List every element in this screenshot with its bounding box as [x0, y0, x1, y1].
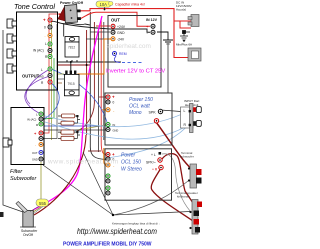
svg-text:IN (AC): IN (AC) — [27, 118, 36, 122]
svg-text:GND: GND — [38, 75, 44, 79]
svg-text:+ R: + R — [152, 168, 158, 172]
svg-text:7915: 7915 — [68, 82, 75, 86]
svg-text:L: L — [184, 109, 186, 113]
svg-text:Power: Power — [121, 153, 136, 159]
svg-text:GND: GND — [32, 158, 38, 162]
svg-text:OUT: OUT — [111, 18, 120, 23]
svg-text:-: - — [45, 34, 46, 38]
svg-text:SPK: SPK — [149, 111, 157, 115]
svg-text:spiderheat.com: spiderheat.com — [107, 43, 151, 50]
svg-text:555: 555 — [39, 201, 47, 206]
svg-text:-: - — [35, 143, 36, 147]
svg-text:On/Off: On/Off — [23, 233, 33, 237]
svg-text:+: + — [112, 95, 115, 100]
svg-text:IN 12V: IN 12V — [146, 18, 158, 22]
svg-text:-24V: -24V — [117, 38, 125, 42]
svg-text:+24V: +24V — [117, 25, 126, 29]
svg-text:Accu(s): Accu(s) — [176, 8, 186, 12]
svg-text:W Stereo: W Stereo — [121, 167, 142, 173]
svg-text:Tone Control: Tone Control — [14, 4, 55, 11]
svg-text:REM: REM — [119, 52, 127, 56]
svg-text:kiri/kanan: kiri/kanan — [177, 195, 190, 199]
svg-text:Mono: Mono — [129, 110, 142, 116]
svg-text:www.spiderheat.com: www.spiderheat.com — [47, 159, 119, 166]
svg-text:Capacitor mika 4x!: Capacitor mika 4x! — [115, 3, 145, 7]
svg-text:0: 0 — [113, 101, 115, 105]
svg-text:Filter: Filter — [10, 169, 23, 175]
svg-text:+: + — [43, 18, 46, 23]
svg-text:GND: GND — [113, 129, 119, 133]
svg-text:IN (AC): IN (AC) — [33, 49, 44, 53]
svg-text:L: L — [45, 42, 47, 46]
svg-text:Inverter 12V to CT 25V: Inverter 12V to CT 25V — [106, 69, 165, 75]
svg-text:Power 150: Power 150 — [129, 97, 153, 103]
svg-text:OCL 150: OCL 150 — [121, 160, 141, 166]
svg-text:7812: 7812 — [68, 46, 75, 50]
svg-text:+: + — [112, 152, 115, 157]
svg-text:10A: 10A — [100, 2, 108, 7]
svg-text:Min/Plus 6A: Min/Plus 6A — [176, 43, 192, 47]
svg-text:SPK>-: SPK>- — [146, 161, 156, 165]
svg-text:OUT: OUT — [32, 151, 38, 155]
svg-text:subwoofer: subwoofer — [180, 155, 194, 159]
svg-text:Keterangan lengkap bisa di lih: Keterangan lengkap bisa di lihat di : — [112, 222, 160, 226]
svg-text:POWER AMPLIFIER MOBIL DIY 750W: POWER AMPLIFIER MOBIL DIY 750W — [63, 242, 152, 248]
svg-text:Power On/Off: Power On/Off — [60, 1, 84, 5]
svg-text:GND: GND — [117, 31, 125, 35]
svg-text:Subwoofer: Subwoofer — [10, 176, 37, 182]
svg-text:OCL watt: OCL watt — [129, 104, 150, 110]
svg-text:0: 0 — [44, 26, 46, 30]
svg-text:http://www.spiderheat.com: http://www.spiderheat.com — [77, 227, 157, 236]
svg-text:IN: IN — [113, 123, 116, 127]
svg-text:OUTPUT: OUTPUT — [22, 74, 40, 79]
svg-text:L: L — [41, 68, 43, 72]
svg-text:+ L: + L — [151, 153, 156, 157]
